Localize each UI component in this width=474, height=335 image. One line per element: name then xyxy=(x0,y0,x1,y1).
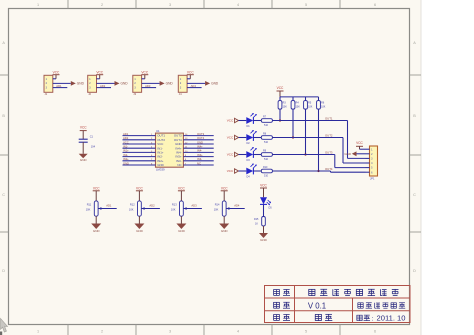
svg-text:VCC: VCC xyxy=(227,136,234,140)
svg-text::: : xyxy=(372,315,374,322)
svg-text:A: A xyxy=(413,41,416,45)
svg-text:VCC: VCC xyxy=(221,186,228,190)
svg-text:10K: 10K xyxy=(214,207,219,211)
svg-text:R15: R15 xyxy=(254,218,259,221)
svg-text:510: 510 xyxy=(264,141,269,144)
svg-text:VCC: VCC xyxy=(227,119,234,123)
svg-text:V 0.1: V 0.1 xyxy=(308,301,326,310)
svg-text:C: C xyxy=(2,193,5,197)
svg-text:GND: GND xyxy=(211,82,219,86)
svg-text:IN4-: IN4- xyxy=(197,149,202,153)
svg-text:GND: GND xyxy=(197,140,203,144)
svg-text:AD2: AD2 xyxy=(100,84,106,88)
svg-text:OUT3: OUT3 xyxy=(197,132,205,136)
svg-text:2011. 10: 2011. 10 xyxy=(377,314,406,323)
svg-text:VCC: VCC xyxy=(260,184,267,188)
svg-text:VCC: VCC xyxy=(123,140,129,144)
svg-text:R11: R11 xyxy=(87,202,92,206)
svg-text:10K: 10K xyxy=(321,106,326,109)
svg-text:AD3: AD3 xyxy=(191,203,197,207)
svg-text:10K: 10K xyxy=(283,106,288,109)
svg-text:VCC: VCC xyxy=(96,71,103,75)
svg-text:10K: 10K xyxy=(129,207,134,211)
svg-text:VCC: VCC xyxy=(356,141,363,145)
svg-text:IN2-: IN2- xyxy=(123,153,128,157)
svg-text:GND: GND xyxy=(221,229,229,233)
svg-text:IN4+: IN4+ xyxy=(197,145,203,149)
svg-text:3: 3 xyxy=(169,330,171,334)
svg-text:2: 2 xyxy=(101,330,103,334)
svg-text:IN3+: IN3+ xyxy=(197,153,203,157)
svg-text:LM339: LM339 xyxy=(156,168,165,172)
svg-text:AD1: AD1 xyxy=(106,203,112,207)
svg-text:AD1: AD1 xyxy=(56,84,62,88)
svg-text:GND: GND xyxy=(80,158,88,162)
svg-text:OUT4: OUT4 xyxy=(325,167,333,171)
svg-text:4: 4 xyxy=(237,330,239,334)
svg-text:GND: GND xyxy=(121,82,129,86)
svg-text:VCC: VCC xyxy=(141,71,148,75)
svg-text:R10: R10 xyxy=(263,166,268,169)
svg-text:OUT1: OUT1 xyxy=(325,117,333,121)
svg-text:1K: 1K xyxy=(255,222,258,225)
svg-text:VCC: VCC xyxy=(53,71,60,75)
svg-text:NC: NC xyxy=(197,161,201,165)
svg-text:6: 6 xyxy=(374,330,376,334)
svg-text:1: 1 xyxy=(37,3,39,7)
svg-text:R13: R13 xyxy=(172,202,177,206)
svg-text:VCC: VCC xyxy=(187,71,194,75)
svg-text:6: 6 xyxy=(374,3,376,7)
svg-text:VCC: VCC xyxy=(227,169,234,173)
svg-text:GND: GND xyxy=(178,229,186,233)
svg-text:OUT2: OUT2 xyxy=(325,134,333,138)
svg-text:AD3: AD3 xyxy=(145,84,151,88)
svg-text:510: 510 xyxy=(264,158,269,161)
svg-text:10K: 10K xyxy=(171,207,176,211)
svg-text:3: 3 xyxy=(169,3,171,7)
svg-text:VCC: VCC xyxy=(80,126,87,130)
svg-text:VCC: VCC xyxy=(277,86,284,90)
svg-text:U1: U1 xyxy=(156,129,160,133)
svg-text:C1: C1 xyxy=(90,135,94,139)
svg-text:510: 510 xyxy=(264,174,269,177)
svg-text:2: 2 xyxy=(101,3,103,7)
svg-text:10K: 10K xyxy=(86,207,91,211)
svg-text:GND: GND xyxy=(260,238,268,242)
svg-text:IN3-: IN3- xyxy=(197,157,202,161)
svg-text:5: 5 xyxy=(305,330,307,334)
svg-text:AD2: AD2 xyxy=(149,203,155,207)
svg-text:AD1: AD1 xyxy=(123,132,129,136)
svg-text:OUT4: OUT4 xyxy=(197,136,205,140)
svg-text:IN2+: IN2+ xyxy=(123,157,129,161)
svg-text:10K: 10K xyxy=(308,106,313,109)
svg-text:OUT3: OUT3 xyxy=(325,151,333,155)
svg-text:GND: GND xyxy=(93,229,101,233)
svg-text:10K: 10K xyxy=(296,106,301,109)
svg-text:NC: NC xyxy=(177,163,181,167)
svg-text:R14: R14 xyxy=(215,202,220,206)
svg-text:IN1+: IN1+ xyxy=(123,149,129,153)
svg-text:GND: GND xyxy=(77,82,85,86)
svg-text:GND: GND xyxy=(344,152,352,156)
svg-text:B: B xyxy=(413,114,416,118)
svg-text:GND: GND xyxy=(166,82,174,86)
svg-text:VCC: VCC xyxy=(93,186,100,190)
svg-text:GND: GND xyxy=(123,161,129,165)
svg-text:VCC: VCC xyxy=(136,186,143,190)
svg-text:C: C xyxy=(413,193,416,197)
svg-text:AD4: AD4 xyxy=(191,84,197,88)
svg-text:4: 4 xyxy=(237,3,239,7)
svg-text:D: D xyxy=(413,269,416,273)
svg-text:AD2: AD2 xyxy=(123,136,129,140)
svg-text:IN1-: IN1- xyxy=(123,145,128,149)
svg-text:GND: GND xyxy=(157,163,163,167)
svg-text:R12: R12 xyxy=(130,202,135,206)
svg-text:1: 1 xyxy=(37,330,39,334)
svg-text:D: D xyxy=(2,269,5,273)
svg-text:5: 5 xyxy=(305,3,307,7)
svg-text:GND: GND xyxy=(136,229,144,233)
svg-text:AD4: AD4 xyxy=(234,203,240,207)
svg-text:VCC: VCC xyxy=(227,153,234,157)
svg-text:510: 510 xyxy=(264,124,269,127)
svg-text:JP1: JP1 xyxy=(370,176,375,180)
svg-text:VCC: VCC xyxy=(178,186,185,190)
svg-text:104: 104 xyxy=(91,144,96,148)
